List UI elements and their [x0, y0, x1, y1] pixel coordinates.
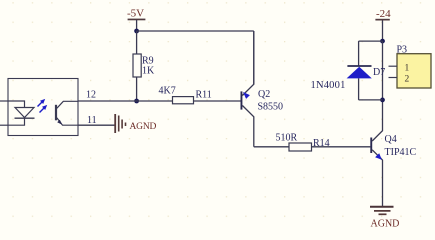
svg-text:D7: D7	[373, 67, 385, 78]
wire	[78, 100, 173, 102]
power -24	[375, 8, 391, 21]
wire	[312, 146, 371, 148]
junction dot	[380, 98, 385, 103]
svg-text:-24: -24	[376, 8, 391, 20]
wire	[78, 124, 115, 126]
svg-text:11: 11	[87, 115, 97, 126]
svg-text:AGND: AGND	[371, 219, 400, 230]
svg-text:1N4001: 1N4001	[311, 80, 346, 91]
svg-text:AGND: AGND	[130, 122, 157, 132]
power -5V	[127, 8, 145, 21]
wire	[136, 20, 138, 31]
svg-text:TIP41C: TIP41C	[385, 147, 417, 158]
ground AGND left	[115, 114, 156, 133]
svg-text:-5V: -5V	[127, 8, 144, 20]
junction dot	[134, 99, 139, 104]
transistor Q4 TIP41C	[370, 100, 416, 206]
resistor R9 1K	[133, 54, 155, 77]
svg-text:2: 2	[405, 75, 410, 85]
junction dot	[380, 39, 385, 44]
wire	[382, 41, 384, 100]
wire	[358, 41, 360, 66]
wire	[254, 146, 289, 148]
svg-text:1: 1	[405, 64, 410, 74]
wire	[253, 31, 255, 85]
svg-text:Q2: Q2	[258, 89, 270, 100]
transistor Q2 S8550	[241, 31, 284, 147]
wire	[0, 100, 8, 102]
svg-text:4K7: 4K7	[159, 85, 176, 96]
junction dot	[134, 29, 139, 34]
ground AGND bottom	[370, 207, 399, 230]
wire	[358, 78, 360, 100]
wire	[137, 30, 254, 32]
diode D7 1N4001	[311, 66, 386, 91]
svg-text:R11: R11	[196, 90, 212, 101]
wire	[359, 40, 383, 42]
wire	[136, 77, 138, 101]
resistor R11 4K7	[159, 85, 212, 103]
wire	[194, 100, 241, 102]
wire	[359, 99, 383, 101]
wire	[0, 124, 8, 126]
connector P3	[389, 45, 432, 89]
wire	[136, 31, 138, 54]
svg-text:Q4: Q4	[385, 134, 397, 145]
svg-text:S8550: S8550	[258, 102, 284, 113]
svg-text:1K: 1K	[142, 66, 155, 77]
wire	[382, 21, 384, 42]
optocoupler	[8, 79, 78, 136]
svg-text:510R: 510R	[276, 132, 298, 143]
resistor R14 510R	[276, 132, 330, 151]
svg-text:12: 12	[86, 90, 96, 101]
